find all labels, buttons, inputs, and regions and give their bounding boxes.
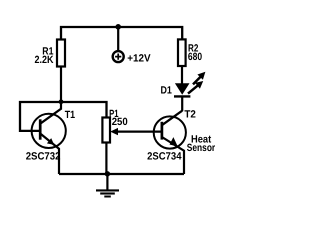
ground bbox=[96, 174, 119, 197]
wire ground rail bbox=[59, 173, 184, 175]
svg-text:680: 680 bbox=[188, 51, 202, 63]
junction ground rail bbox=[105, 171, 110, 176]
svg-text:2SC732: 2SC732 bbox=[26, 151, 61, 163]
wire junction to P1 top bbox=[61, 102, 107, 118]
svg-text:D1: D1 bbox=[161, 84, 173, 96]
wire D1 to T2 collector bbox=[181, 96, 183, 111]
svg-text:+12V: +12V bbox=[127, 52, 150, 64]
wire P1 bottom lead bbox=[105, 143, 107, 174]
emission arrow 1 bbox=[193, 72, 205, 85]
svg-text:2.2K: 2.2K bbox=[35, 54, 54, 66]
transistor T2 bbox=[154, 111, 186, 174]
svg-text:T1: T1 bbox=[65, 109, 76, 121]
svg-text:Sensor: Sensor bbox=[187, 142, 215, 154]
svg-text:2SC734: 2SC734 bbox=[147, 151, 182, 163]
svg-text:250: 250 bbox=[112, 116, 128, 128]
node T1 base-collector junction bbox=[59, 99, 64, 104]
wire R1 to junction bbox=[60, 67, 62, 103]
wire feedback loop to T1 base bbox=[20, 102, 61, 131]
LED D1 bbox=[174, 83, 190, 96]
wire supply lead bbox=[117, 27, 119, 51]
resistor R2 bbox=[178, 39, 186, 66]
wire P1 wiper to T2 base bbox=[110, 128, 162, 135]
svg-text:T2: T2 bbox=[184, 108, 196, 120]
label Heat Sensor bbox=[187, 134, 215, 154]
wire top rail bbox=[61, 27, 182, 40]
potentiometer P1 bbox=[102, 118, 110, 143]
junction top rail to supply bbox=[115, 24, 121, 30]
transistor T1 bbox=[32, 103, 66, 175]
resistor R1 bbox=[57, 40, 65, 67]
emission arrow 2 bbox=[188, 81, 203, 94]
wire R2 to D1 bbox=[181, 66, 183, 84]
supply terminal +12V bbox=[113, 51, 124, 62]
